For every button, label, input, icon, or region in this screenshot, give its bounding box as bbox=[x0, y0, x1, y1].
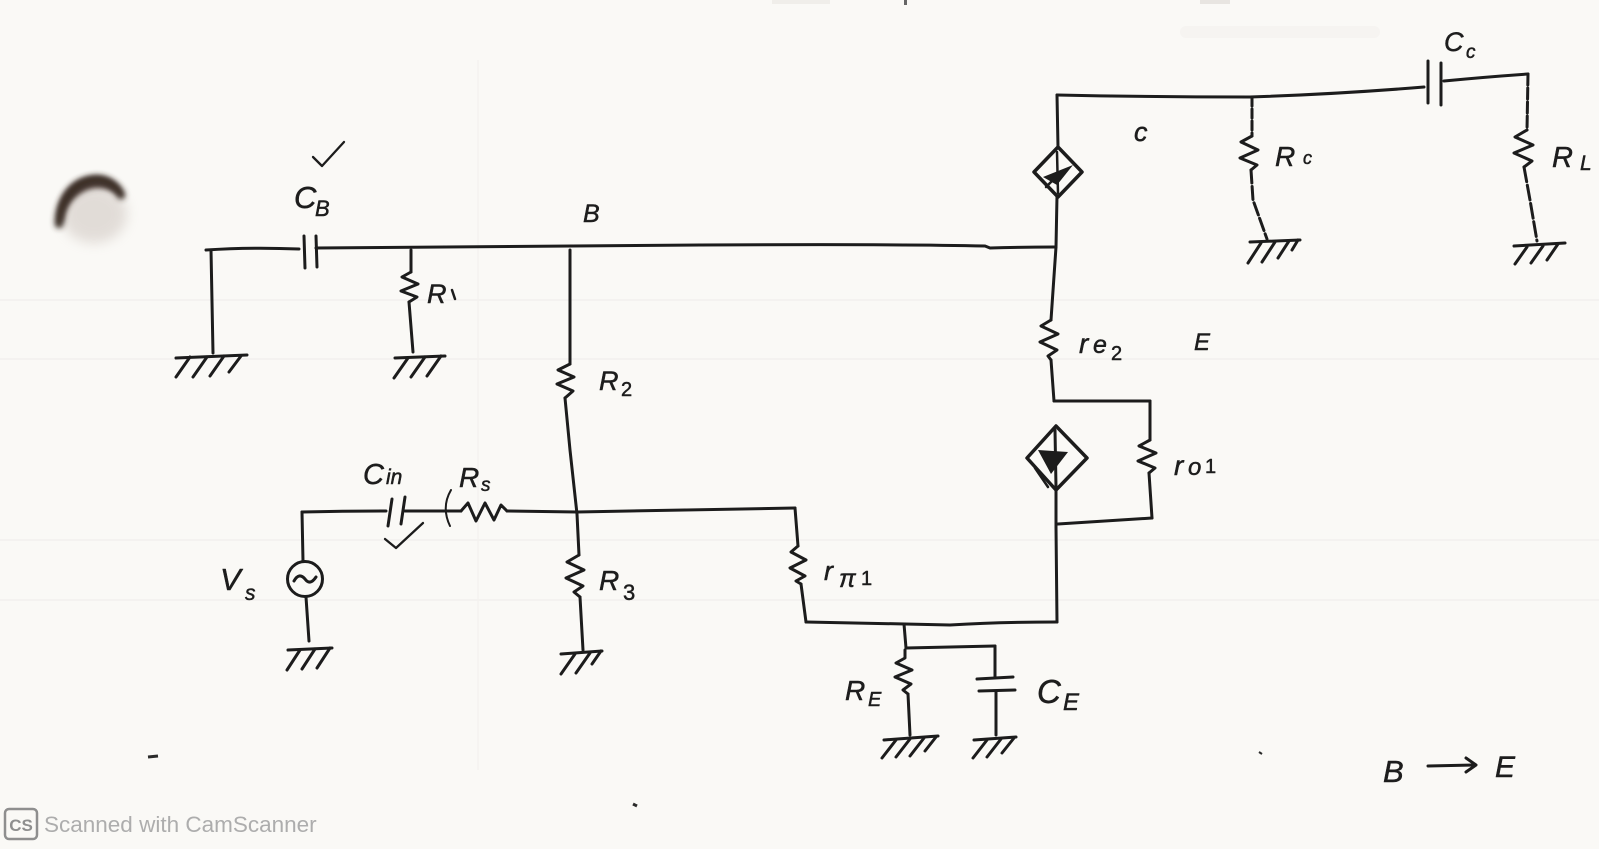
wire: collector rail to Cc bbox=[1057, 87, 1424, 97]
capacitor CE bbox=[977, 677, 1015, 691]
svg-text:R: R bbox=[599, 366, 619, 396]
svg-text:E: E bbox=[868, 689, 882, 711]
wire: bottom emitter line bbox=[806, 622, 1057, 625]
resistor re2 bbox=[1040, 320, 1058, 360]
svg-text:r: r bbox=[824, 556, 834, 586]
svg-text:c: c bbox=[1303, 148, 1312, 168]
wire: Cin to Rs bbox=[405, 510, 461, 513]
svg-text:R: R bbox=[1275, 141, 1295, 172]
label Cc bbox=[1444, 27, 1476, 63]
svg-text:R: R bbox=[459, 462, 479, 493]
svg-text:R: R bbox=[845, 675, 865, 706]
svg-text:in: in bbox=[386, 466, 402, 489]
svg-text:V: V bbox=[220, 562, 244, 597]
svg-text:E: E bbox=[1063, 689, 1080, 716]
svg-text:e: e bbox=[1093, 331, 1107, 359]
svg-text:C: C bbox=[1037, 673, 1062, 710]
capacitor CB bbox=[304, 236, 317, 268]
label R1 bbox=[427, 279, 455, 309]
svg-text:1: 1 bbox=[1205, 456, 1216, 478]
resistor R1 bbox=[401, 272, 418, 302]
resistor R2 bbox=[557, 364, 574, 398]
annotation B arrow E bbox=[1383, 751, 1516, 789]
wire: Vs to input line bbox=[302, 512, 303, 561]
ink smudge blob top-left bbox=[59, 177, 127, 243]
svg-text:2: 2 bbox=[621, 379, 632, 401]
wire: Vs to ground bbox=[306, 597, 309, 641]
ground (RE) bbox=[882, 736, 938, 758]
CamScanner footer text bbox=[44, 812, 317, 837]
wire: re2 to parallel section bbox=[1051, 360, 1054, 401]
label Rc bbox=[1275, 141, 1312, 172]
wire: RE top lead bbox=[904, 624, 906, 648]
wire: RL bottom lead bbox=[1524, 167, 1537, 241]
wire: R1 bottom lead bbox=[409, 302, 413, 352]
label CB bbox=[294, 180, 330, 221]
resistor R3 bbox=[566, 555, 584, 597]
wire: R3 bottom lead bbox=[580, 597, 583, 650]
svg-text:3: 3 bbox=[623, 580, 635, 605]
svg-text:CS: CS bbox=[9, 816, 33, 835]
label re2 bbox=[1079, 328, 1122, 365]
svg-text:C: C bbox=[1444, 27, 1464, 57]
svg-text:c: c bbox=[1466, 42, 1476, 63]
wire: CE top lead bbox=[994, 646, 997, 677]
svg-text:C: C bbox=[363, 459, 385, 491]
wire: R2 to input line junction bbox=[565, 398, 577, 514]
wire: B rail from CB to dependent source bbox=[316, 245, 1055, 248]
svg-text:s: s bbox=[481, 475, 491, 496]
wire: input line Vs to Cin bbox=[302, 511, 386, 512]
svg-text:2: 2 bbox=[1111, 343, 1122, 365]
wire: Rs to rpi corner bbox=[507, 508, 795, 512]
wire: ro1 top lead bbox=[1149, 401, 1152, 440]
svg-text:R: R bbox=[1552, 142, 1573, 174]
wire: rpi1 bottom lead bbox=[801, 584, 806, 622]
svg-text:R: R bbox=[599, 565, 619, 596]
wire: CE bottom lead bbox=[995, 691, 998, 735]
dependent source 2 (diamond, emitter) bbox=[1027, 426, 1087, 490]
ground (R1) bbox=[394, 356, 445, 378]
svg-text:Scanned with CamScanner: Scanned with CamScanner bbox=[44, 812, 317, 837]
wire: RL top lead bbox=[1527, 74, 1528, 130]
capacitor Cin bbox=[388, 497, 405, 526]
label Vs bbox=[220, 562, 256, 605]
resistor rpi1 bbox=[790, 546, 806, 584]
ground (R3) bbox=[561, 651, 602, 674]
ground (RL) bbox=[1514, 243, 1565, 264]
wire: R2 top lead bbox=[569, 250, 572, 364]
checkmark near CB bbox=[313, 142, 344, 166]
wire: diamond2 bottom to junction bbox=[1055, 490, 1058, 527]
resistor Rc bbox=[1240, 136, 1258, 170]
resistor ro1 bbox=[1138, 440, 1156, 473]
ground (Vs) bbox=[287, 648, 332, 670]
svg-text:C: C bbox=[294, 180, 317, 215]
label R2 bbox=[599, 366, 632, 401]
wire: vertical up to dependent source bottom bbox=[1056, 527, 1057, 622]
dependent source 1 (diamond, collector) bbox=[1034, 147, 1082, 197]
ground (left input) bbox=[176, 355, 247, 377]
node E label bbox=[1194, 329, 1211, 356]
wire: RE to CE link bbox=[906, 646, 995, 648]
svg-text:B: B bbox=[1383, 754, 1404, 789]
svg-text:s: s bbox=[245, 582, 256, 605]
node B label bbox=[583, 200, 600, 228]
wire: Cc to RL corner bbox=[1444, 74, 1528, 81]
ground (CE) bbox=[973, 737, 1016, 758]
svg-text:1: 1 bbox=[861, 568, 872, 590]
svg-text:R: R bbox=[427, 279, 447, 309]
wire: corner down to rpi1 bbox=[795, 508, 798, 546]
ground (Rc) bbox=[1248, 240, 1300, 263]
capacitor Cc bbox=[1428, 61, 1441, 105]
wire: re2 top lead from B junction bbox=[1051, 247, 1056, 320]
label Rs bbox=[459, 462, 491, 496]
wire: R3 top lead bbox=[577, 514, 579, 555]
label CE bbox=[1037, 673, 1080, 716]
svg-text:π: π bbox=[839, 565, 857, 593]
checkmark below Cin bbox=[385, 523, 423, 548]
label RE bbox=[845, 675, 882, 711]
stray small marks bbox=[148, 752, 1262, 806]
source Vs (sine source) bbox=[288, 562, 323, 597]
node C label bbox=[1134, 117, 1148, 147]
wire: left vertical to ground bbox=[211, 250, 213, 353]
svg-text:c: c bbox=[1134, 117, 1148, 147]
label R3 bbox=[599, 565, 635, 605]
svg-text:E: E bbox=[1495, 751, 1516, 784]
stray arc mark left of Rs bbox=[446, 490, 451, 526]
svg-text:L: L bbox=[1580, 152, 1592, 175]
wire: diamond1 bottom lead to B wire junction bbox=[1056, 196, 1057, 247]
resistor Rs bbox=[461, 503, 507, 521]
resistor RE bbox=[895, 650, 912, 694]
wire: R1 top lead bbox=[410, 250, 413, 272]
wire: ro1 bottom lead bbox=[1149, 473, 1152, 518]
wire: bottom link from ro1 bbox=[1058, 518, 1152, 524]
label Cin bbox=[363, 459, 402, 491]
wire: top link to ro1 bbox=[1054, 400, 1150, 403]
label ro1 bbox=[1174, 450, 1216, 481]
wire: Rc bottom lead bbox=[1251, 170, 1267, 239]
label rpi1 bbox=[824, 556, 872, 593]
svg-text:E: E bbox=[1194, 329, 1211, 356]
svg-text:B: B bbox=[583, 200, 600, 228]
svg-text:B: B bbox=[315, 196, 330, 221]
label RL bbox=[1552, 142, 1592, 175]
CamScanner footer badge bbox=[5, 809, 37, 839]
wire: Rc top lead bbox=[1251, 97, 1254, 136]
wire: RE bottom lead bbox=[908, 694, 910, 735]
resistor RL bbox=[1514, 130, 1533, 167]
wire: diamond1 top lead to collector rail bbox=[1057, 95, 1058, 147]
svg-text:o: o bbox=[1188, 454, 1201, 481]
wire: left input stub to CB bbox=[206, 248, 299, 250]
